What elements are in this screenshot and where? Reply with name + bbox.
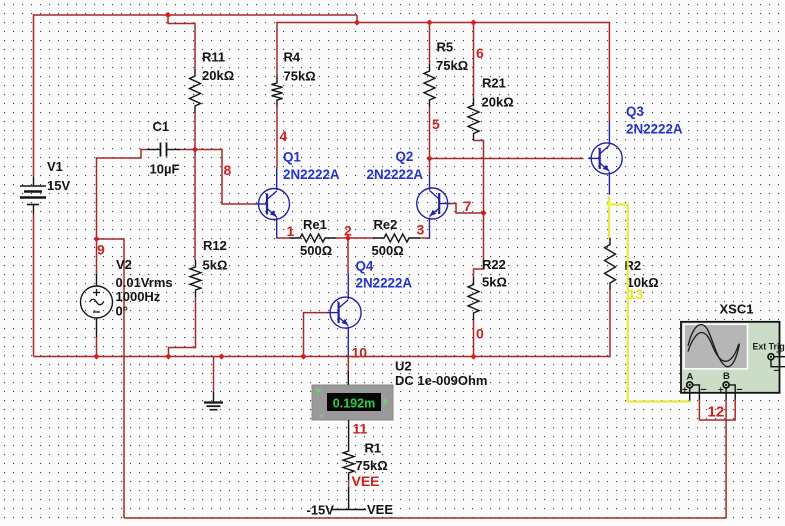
svg-text:A: A: [687, 372, 694, 383]
transistor Q3: [588, 143, 622, 174]
wire Q3 collector drop from rail: [608, 22, 610, 122]
resistor Re1: [289, 234, 336, 242]
svg-text:75kΩ: 75kΩ: [284, 69, 316, 84]
wire left drop from top rail to V1: [33, 14, 35, 177]
resistor R5: [424, 64, 435, 107]
junction dot yellow node 13: [606, 201, 613, 208]
svg-text:R1: R1: [365, 441, 382, 456]
svg-text:V1: V1: [47, 159, 63, 174]
svg-text:R4: R4: [284, 50, 301, 65]
svg-text:R11: R11: [202, 50, 225, 65]
svg-text:R22: R22: [482, 257, 506, 272]
label R1 value: [356, 441, 388, 474]
wire yellow branch to scope A: [609, 205, 690, 402]
label C1 value: [150, 119, 180, 177]
svg-text:2N2222A: 2N2222A: [283, 167, 340, 182]
wire scope A plus stub: [689, 388, 691, 402]
svg-text:B: B: [723, 371, 730, 382]
scope Ext Trig terminal: [753, 342, 785, 377]
label U2 value: [395, 359, 487, 389]
svg-text:5kΩ: 5kΩ: [203, 258, 228, 273]
svg-text:0°: 0°: [116, 304, 128, 319]
transistor Q4 leads: [347, 274, 349, 358]
junction dot second rail x357: [354, 19, 360, 25]
wire C1 left to node 9 column: [97, 150, 148, 240]
svg-text:4: 4: [280, 128, 288, 144]
wire top rail V+ upper: [34, 14, 358, 16]
svg-text:-15V: -15V: [307, 503, 335, 518]
label Q3: [626, 104, 683, 137]
junction dot Q4 base at rail: [300, 353, 306, 359]
junction dot node 9: [93, 236, 99, 242]
transistor Q3 leads: [608, 122, 610, 195]
wire node 2 down to Q4 collector: [347, 238, 349, 274]
wire R11 bottom to C1 junction: [194, 113, 196, 150]
wire ammeter top lead: [347, 371, 349, 385]
resistor R4: [272, 76, 283, 107]
svg-text:+: +: [718, 385, 724, 396]
svg-text:VEE: VEE: [352, 473, 380, 489]
junction dot R12 at rail: [165, 353, 171, 359]
svg-text:2N2222A: 2N2222A: [356, 276, 413, 291]
svg-text:R5: R5: [437, 40, 454, 55]
svg-text:Re1: Re1: [303, 217, 327, 232]
svg-text:0.01Vrms: 0.01Vrms: [116, 275, 173, 290]
svg-text:6: 6: [476, 45, 484, 61]
label R5 value: [436, 40, 468, 74]
label Q1: [283, 150, 340, 183]
resistor R12: [190, 260, 201, 297]
resistor Re2: [373, 234, 420, 242]
wire Q2 base to node 7: [450, 204, 484, 214]
svg-text:XSC1: XSC1: [720, 302, 754, 317]
junction dot R22 at rail: [470, 353, 476, 359]
transistor Q1 leads: [276, 168, 278, 239]
wire R21 top drop: [473, 23, 475, 99]
wire C1 right lead link: [179, 149, 195, 151]
label Q4: [356, 259, 413, 291]
wire Q1 emitter to Re1: [277, 237, 289, 239]
label R4 value: [284, 50, 316, 84]
svg-text:9: 9: [97, 242, 105, 258]
svg-text:8: 8: [224, 162, 232, 178]
svg-text:Q1: Q1: [283, 150, 301, 165]
svg-text:–: –: [701, 384, 707, 396]
ammeter U2 box: [312, 385, 393, 420]
svg-text:+: +: [682, 385, 688, 396]
wire yellow node 13 vertical to R2: [608, 196, 610, 238]
wire bottom rail to scope B: [124, 517, 727, 519]
wire jog top rail to second rail: [356, 15, 358, 23]
resistor R21: [468, 98, 479, 141]
resistor R22: [468, 278, 479, 321]
label V2 values: [116, 257, 173, 319]
svg-text:Q3: Q3: [626, 104, 644, 119]
capacitor C1: [147, 143, 180, 157]
svg-text:3: 3: [417, 222, 425, 238]
wire V2 bottom to node10 rail: [96, 337, 98, 357]
wire node5 to Q3 base: [430, 158, 584, 160]
resistor R11: [190, 69, 201, 113]
wire R1 bottom red bit: [348, 480, 350, 487]
ac source V2: [81, 274, 113, 337]
svg-text:20kΩ: 20kΩ: [482, 95, 514, 110]
svg-text:10: 10: [352, 345, 368, 361]
wire node 10 rail horizontal: [34, 356, 611, 358]
junction dot at top rail x168: [165, 12, 171, 18]
wire node 9 to V2 top: [96, 239, 98, 274]
wire R21 bottom jog: [474, 141, 484, 214]
svg-text:5kΩ: 5kΩ: [482, 275, 507, 290]
svg-text:2N2222A: 2N2222A: [367, 167, 424, 182]
svg-text:2: 2: [344, 223, 352, 239]
scope channel B terminal: [718, 371, 743, 396]
svg-text:V2: V2: [116, 257, 132, 272]
label VEE -15V: [307, 502, 394, 518]
ground symbol: [204, 357, 223, 410]
svg-text:500Ω: 500Ω: [372, 243, 404, 258]
junction dot node 2: [345, 235, 351, 241]
wire scope B minus branch: [729, 385, 735, 400]
label R21 value: [482, 76, 514, 110]
svg-text:75kΩ: 75kΩ: [356, 458, 388, 473]
battery V1: [20, 177, 46, 214]
svg-text:75kΩ: 75kΩ: [436, 58, 468, 73]
svg-text:Q2: Q2: [396, 149, 414, 164]
junction dot R21 top: [470, 19, 476, 25]
wire R22 bottom to rail node 0: [473, 320, 475, 357]
wire R5 top drop: [429, 23, 431, 65]
wire node 7 down to R22: [474, 213, 484, 278]
junction dot V2 at rail: [93, 353, 99, 359]
transistor Q4: [327, 297, 361, 328]
svg-text:–: –: [737, 384, 743, 396]
oscilloscope XSC1 box: [681, 322, 780, 393]
svg-text:Q4: Q4: [356, 259, 374, 274]
svg-text:1: 1: [287, 223, 295, 239]
wire node 9 branch right and down to bottom rail: [97, 239, 125, 518]
resistor R2: [605, 238, 616, 291]
scope channel A terminal: [682, 372, 707, 396]
label R2 value: [625, 258, 659, 290]
wire R2 bottom riser: [609, 290, 611, 357]
svg-text:VEE: VEE: [367, 502, 393, 517]
label V1 value: [47, 159, 70, 193]
junction dot Q2 collector node 5: [426, 155, 432, 161]
wire ammeter bottom lead to R1: [348, 420, 350, 444]
wire Q4 emitter to ammeter red part: [347, 357, 349, 372]
svg-text:10µF: 10µF: [150, 162, 180, 177]
svg-text:11: 11: [353, 421, 368, 437]
wire R5 bottom to Q2 collector node: [429, 107, 431, 159]
wire Q4 base down to rail: [304, 313, 328, 357]
svg-text:R21: R21: [482, 76, 506, 91]
svg-text:2N2222A: 2N2222A: [626, 122, 683, 137]
resistor R1: [343, 444, 354, 480]
wire Re2 left from node 2: [348, 237, 373, 239]
wire node 8 from C1 junction to Q1 base: [195, 150, 256, 205]
wire R12 bottom jog to rail: [169, 297, 196, 357]
wire R12 top red: [194, 150, 196, 261]
svg-text:U2: U2: [395, 359, 412, 374]
wire Q2 collector stub: [429, 159, 431, 174]
wire scope B down to bottom rail: [725, 400, 727, 518]
wire scope A minus branch: [693, 385, 700, 400]
wire Re1 to node 2: [336, 237, 348, 239]
label R22 value: [482, 257, 507, 290]
wire R11 top jog: [168, 15, 195, 69]
label R12 value: [203, 238, 228, 273]
label Re1 value: [300, 217, 332, 258]
svg-text:15V: 15V: [47, 178, 70, 193]
svg-text:7: 7: [464, 198, 472, 214]
svg-text:1000Hz: 1000Hz: [116, 289, 161, 304]
wire node 12 loop: [699, 400, 735, 420]
label R11 value: [202, 50, 234, 84]
svg-text:DC 1e-009Ohm: DC 1e-009Ohm: [395, 373, 487, 388]
svg-text:0: 0: [476, 326, 484, 342]
svg-text:5: 5: [432, 116, 440, 132]
svg-text:R12: R12: [203, 238, 227, 253]
svg-text:20kΩ: 20kΩ: [202, 68, 234, 83]
wire scope B plus stub: [725, 388, 727, 400]
transistor Q1: [256, 189, 290, 220]
svg-text:C1: C1: [153, 119, 170, 134]
VEE power symbol: [332, 487, 366, 510]
wire R4 bottom to Q1 collector: [276, 107, 278, 168]
svg-text:0.192m: 0.192m: [333, 397, 375, 411]
svg-text:500Ω: 500Ω: [300, 243, 332, 258]
label Re2 value: [372, 217, 404, 258]
junction dot node 7: [480, 210, 486, 216]
svg-text:Re2: Re2: [374, 217, 398, 232]
transistor Q2 leads: [429, 174, 431, 240]
wire Re2 right to Q2 emitter: [420, 237, 430, 239]
wire second top rail: [277, 22, 609, 24]
wire V1 minus to node10 rail: [33, 214, 35, 357]
svg-text:12: 12: [708, 404, 725, 421]
junction dot C1/R11/R12 node 8: [192, 146, 198, 152]
junction dot ground at rail: [218, 353, 224, 359]
label Q2: [367, 149, 424, 182]
transistor Q2: [417, 188, 451, 219]
svg-text:13: 13: [628, 286, 644, 302]
junction dot R5 top: [426, 19, 432, 25]
wire R4 top drop: [276, 22, 278, 76]
